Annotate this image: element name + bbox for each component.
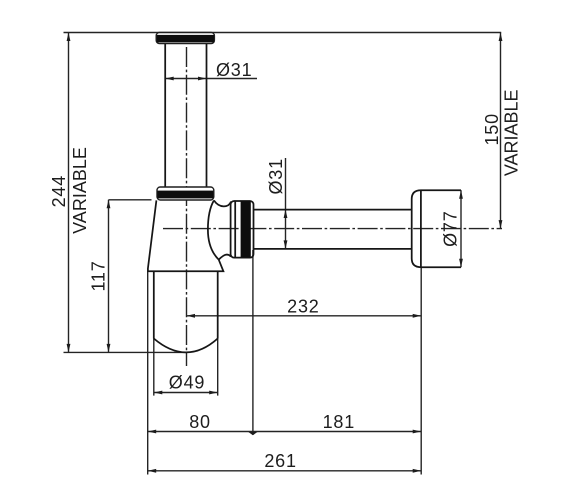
svg-text:VARIABLE: VARIABLE bbox=[70, 147, 90, 234]
svg-text:181: 181 bbox=[323, 412, 355, 432]
svg-text:232: 232 bbox=[287, 297, 319, 317]
svg-text:244: 244 bbox=[49, 175, 69, 207]
svg-text:Ø31: Ø31 bbox=[216, 60, 252, 80]
svg-text:VARIABLE: VARIABLE bbox=[502, 89, 522, 176]
svg-text:80: 80 bbox=[189, 412, 211, 432]
svg-text:Ø77: Ø77 bbox=[441, 210, 461, 246]
svg-text:Ø49: Ø49 bbox=[169, 372, 205, 392]
svg-text:Ø31: Ø31 bbox=[266, 158, 286, 194]
svg-text:150: 150 bbox=[482, 113, 502, 145]
svg-text:117: 117 bbox=[88, 260, 108, 291]
svg-text:261: 261 bbox=[264, 451, 296, 471]
